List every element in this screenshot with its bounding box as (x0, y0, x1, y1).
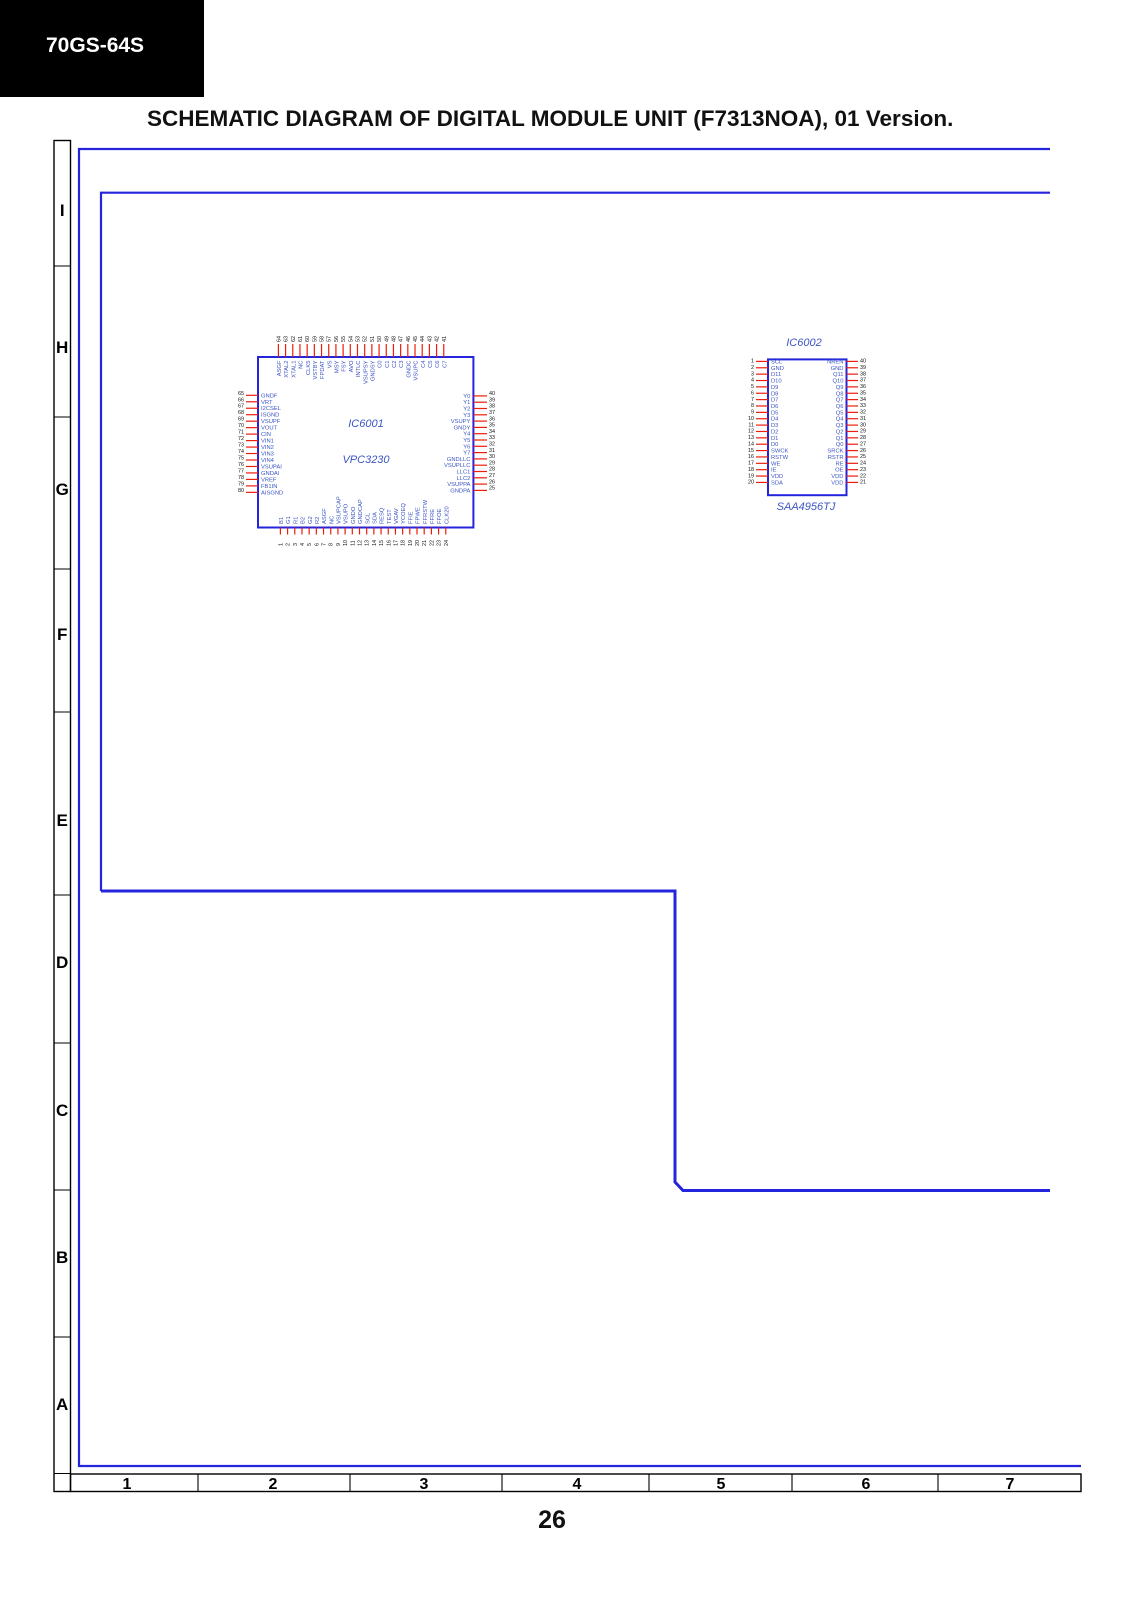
svg-text:D1: D1 (771, 436, 778, 442)
svg-text:TEST: TEST (387, 509, 393, 524)
svg-text:21: 21 (422, 540, 428, 546)
svg-text:28: 28 (489, 467, 495, 473)
svg-text:VSUPLLC: VSUPLLC (444, 463, 470, 469)
svg-text:AISGND: AISGND (261, 490, 283, 496)
svg-text:41: 41 (442, 336, 448, 342)
svg-text:Q0: Q0 (836, 442, 844, 448)
svg-text:35: 35 (860, 390, 866, 396)
svg-text:VREF: VREF (261, 477, 277, 483)
svg-text:61: 61 (298, 336, 304, 342)
svg-text:Y3: Y3 (463, 413, 470, 419)
svg-text:35: 35 (489, 423, 495, 429)
svg-text:D9: D9 (771, 385, 778, 391)
svg-text:SCL: SCL (771, 359, 783, 365)
svg-text:73: 73 (238, 443, 244, 449)
svg-text:G1: G1 (286, 516, 292, 524)
svg-text:Q11: Q11 (833, 372, 844, 378)
svg-text:26: 26 (538, 1506, 566, 1534)
svg-text:38: 38 (860, 371, 866, 377)
svg-text:Q2: Q2 (836, 429, 844, 435)
svg-text:C1: C1 (385, 361, 391, 368)
svg-text:FSY: FSY (342, 360, 348, 371)
svg-text:5: 5 (751, 384, 754, 390)
svg-text:VIN4: VIN4 (261, 458, 275, 464)
svg-text:74: 74 (238, 449, 244, 455)
svg-text:MSY: MSY (335, 360, 341, 373)
svg-text:CLK5: CLK5 (306, 361, 312, 376)
svg-text:R2: R2 (315, 517, 321, 524)
svg-text:ISGND: ISGND (261, 413, 279, 419)
svg-text:GNDSY: GNDSY (370, 360, 376, 381)
svg-text:C2: C2 (392, 361, 398, 368)
column number strip (71, 1474, 1082, 1493)
svg-text:D11: D11 (771, 372, 781, 378)
svg-text:43: 43 (427, 336, 433, 342)
svg-text:34: 34 (860, 397, 866, 403)
svg-text:VSUPF: VSUPF (261, 419, 281, 425)
svg-text:FFOE: FFOE (437, 508, 443, 524)
svg-text:32: 32 (489, 442, 495, 448)
svg-text:34: 34 (489, 429, 495, 435)
svg-text:15: 15 (748, 448, 754, 454)
svg-text:50: 50 (377, 336, 383, 342)
svg-text:D4: D4 (771, 417, 779, 423)
svg-text:XTAL2: XTAL2 (284, 361, 290, 378)
svg-text:NC: NC (329, 516, 335, 524)
svg-text:45: 45 (413, 336, 419, 342)
svg-text:D: D (56, 953, 68, 972)
svg-text:70GS-64S: 70GS-64S (46, 34, 144, 57)
svg-text:17: 17 (393, 540, 399, 546)
svg-text:7: 7 (1006, 1476, 1015, 1493)
row letter strip (54, 141, 71, 1492)
svg-text:66: 66 (238, 397, 244, 403)
svg-text:26: 26 (860, 448, 866, 454)
svg-text:Y0: Y0 (463, 394, 470, 400)
svg-text:68: 68 (238, 410, 244, 416)
svg-text:Y2: Y2 (463, 407, 470, 413)
svg-text:D3: D3 (771, 423, 778, 429)
svg-text:78: 78 (238, 475, 244, 481)
svg-text:E: E (57, 811, 68, 830)
svg-text:31: 31 (489, 448, 495, 454)
svg-text:33: 33 (860, 403, 866, 409)
svg-text:LLC2: LLC2 (457, 476, 471, 482)
svg-text:18: 18 (748, 467, 754, 473)
svg-text:VSUPAI: VSUPAI (261, 464, 282, 470)
svg-text:C3: C3 (399, 361, 405, 368)
svg-text:Y1: Y1 (463, 400, 470, 406)
svg-text:75: 75 (238, 456, 244, 462)
svg-text:9: 9 (751, 410, 754, 416)
svg-text:VSTBY: VSTBY (313, 360, 319, 379)
svg-text:11: 11 (350, 540, 356, 546)
svg-text:36: 36 (489, 416, 495, 422)
svg-text:25: 25 (860, 454, 866, 460)
svg-text:31: 31 (860, 416, 866, 422)
svg-text:VGAV: VGAV (394, 508, 400, 524)
svg-text:D7: D7 (771, 398, 778, 404)
svg-text:VSUPCAP: VSUPCAP (337, 496, 343, 524)
svg-text:Y7: Y7 (463, 451, 470, 457)
svg-text:22: 22 (860, 473, 866, 479)
svg-text:C7: C7 (442, 361, 448, 368)
svg-text:13: 13 (748, 435, 754, 441)
svg-text:ASGF: ASGF (322, 508, 328, 524)
svg-text:VPC3230: VPC3230 (342, 454, 390, 466)
svg-text:13: 13 (365, 540, 371, 546)
svg-text:6: 6 (314, 543, 320, 546)
svg-text:LLC1: LLC1 (457, 470, 471, 476)
svg-text:77: 77 (238, 468, 244, 474)
svg-text:B1: B1 (279, 517, 285, 524)
svg-text:10: 10 (343, 540, 349, 546)
svg-text:VSUPSY: VSUPSY (363, 360, 369, 384)
svg-text:65: 65 (238, 391, 244, 397)
svg-text:GNDC: GNDC (406, 361, 412, 378)
svg-text:VDD: VDD (831, 480, 843, 486)
svg-text:14: 14 (748, 441, 754, 447)
op-amp U2 IC6002 body (768, 337, 847, 513)
svg-text:14: 14 (372, 540, 378, 546)
IC6002 left pins 1-20 (748, 359, 789, 487)
svg-text:25: 25 (489, 486, 495, 492)
svg-text:71: 71 (238, 430, 244, 436)
svg-text:70: 70 (238, 423, 244, 429)
sheet title (147, 106, 953, 131)
svg-text:I: I (60, 201, 65, 220)
svg-text:5: 5 (307, 543, 313, 546)
svg-text:55: 55 (341, 336, 347, 342)
svg-text:30: 30 (489, 454, 495, 460)
svg-text:19: 19 (748, 473, 754, 479)
svg-text:12: 12 (748, 429, 754, 435)
svg-text:63: 63 (284, 336, 290, 342)
svg-text:SDA: SDA (771, 480, 783, 486)
svg-text:Q5: Q5 (836, 410, 844, 416)
svg-text:GNDAI: GNDAI (261, 471, 280, 477)
IC6001 left pins 65-80 (238, 391, 283, 497)
svg-text:12: 12 (357, 540, 363, 546)
svg-text:22: 22 (429, 540, 435, 546)
svg-text:C5: C5 (428, 361, 434, 368)
svg-text:VDD: VDD (771, 474, 783, 480)
svg-text:IC6001: IC6001 (348, 418, 383, 430)
svg-text:Q3: Q3 (836, 423, 844, 429)
svg-text:5: 5 (717, 1476, 726, 1493)
svg-text:SRCK: SRCK (827, 449, 843, 455)
svg-text:SWCK: SWCK (771, 449, 789, 455)
svg-text:3: 3 (420, 1476, 429, 1493)
svg-text:40: 40 (489, 391, 495, 397)
svg-text:XTAL1: XTAL1 (291, 361, 297, 378)
svg-text:20: 20 (748, 480, 754, 486)
svg-text:VS: VS (327, 360, 333, 368)
svg-text:19: 19 (408, 540, 414, 546)
svg-text:FPDAT: FPDAT (320, 360, 326, 379)
svg-text:SCL: SCL (365, 512, 371, 524)
svg-text:GNDO: GNDO (351, 506, 357, 524)
svg-text:6: 6 (862, 1476, 871, 1493)
svg-text:RSTR: RSTR (828, 455, 844, 461)
svg-text:38: 38 (489, 404, 495, 410)
svg-text:VDD: VDD (831, 474, 843, 480)
svg-text:10: 10 (748, 416, 754, 422)
svg-text:VSUPPA: VSUPPA (447, 482, 470, 488)
svg-text:D0: D0 (771, 442, 778, 448)
svg-text:28: 28 (860, 435, 866, 441)
svg-text:Q4: Q4 (836, 417, 845, 423)
svg-text:24: 24 (860, 461, 866, 467)
IC6001 bottom pins 1-24 (278, 496, 450, 546)
svg-text:57: 57 (327, 336, 333, 342)
svg-text:72: 72 (238, 436, 244, 442)
svg-text:Q6: Q6 (836, 404, 844, 410)
svg-text:80: 80 (238, 488, 244, 494)
svg-text:8: 8 (329, 543, 335, 546)
svg-text:21: 21 (860, 480, 866, 486)
svg-text:2: 2 (269, 1476, 278, 1493)
svg-text:67: 67 (238, 404, 244, 410)
svg-text:4: 4 (573, 1476, 582, 1493)
svg-text:56: 56 (334, 336, 340, 342)
svg-text:7: 7 (751, 397, 754, 403)
svg-text:79: 79 (238, 481, 244, 487)
svg-text:48: 48 (391, 336, 397, 342)
svg-text:42: 42 (435, 336, 441, 342)
svg-text:IE: IE (771, 468, 777, 474)
svg-text:C6: C6 (435, 361, 441, 368)
svg-text:D10: D10 (771, 379, 782, 385)
svg-text:RESQ: RESQ (380, 507, 386, 524)
svg-text:20: 20 (415, 540, 421, 546)
svg-text:OE: OE (835, 468, 844, 474)
svg-text:G2: G2 (308, 516, 314, 524)
svg-text:AVO: AVO (349, 360, 355, 372)
svg-text:Y5: Y5 (463, 438, 470, 444)
svg-text:RSTW: RSTW (771, 455, 789, 461)
svg-text:C0: C0 (378, 361, 384, 368)
svg-text:8: 8 (751, 403, 754, 409)
svg-text:FFIE: FFIE (408, 511, 414, 524)
svg-text:39: 39 (489, 397, 495, 403)
svg-text:Q8: Q8 (836, 391, 844, 397)
svg-text:49: 49 (384, 336, 390, 342)
svg-text:Q10: Q10 (833, 379, 844, 385)
svg-text:29: 29 (860, 429, 866, 435)
svg-text:36: 36 (860, 384, 866, 390)
svg-text:VIN1: VIN1 (261, 439, 274, 445)
svg-text:CIN: CIN (261, 432, 271, 438)
svg-text:17: 17 (748, 461, 754, 467)
svg-text:Q9: Q9 (836, 385, 844, 391)
svg-text:SDA: SDA (372, 512, 378, 524)
svg-text:39: 39 (860, 365, 866, 371)
svg-text:3: 3 (751, 371, 754, 377)
svg-text:FB1IN: FB1IN (261, 484, 277, 490)
svg-text:29: 29 (489, 460, 495, 466)
svg-text:D6: D6 (771, 404, 778, 410)
svg-text:WE: WE (771, 461, 780, 467)
svg-text:37: 37 (860, 378, 866, 384)
svg-text:40: 40 (860, 359, 866, 365)
svg-text:GNDCAP: GNDCAP (358, 499, 364, 524)
svg-text:4: 4 (300, 543, 306, 546)
svg-text:30: 30 (860, 422, 866, 428)
svg-text:47: 47 (399, 336, 405, 342)
svg-text:VIN2: VIN2 (261, 445, 274, 451)
IC6002 right pins 40-21 (827, 359, 866, 487)
svg-text:44: 44 (420, 336, 426, 342)
outer border frame (79, 149, 1081, 1466)
svg-text:INTLC: INTLC (356, 361, 362, 378)
svg-text:33: 33 (489, 435, 495, 441)
svg-text:C: C (56, 1101, 68, 1120)
svg-text:RE: RE (835, 461, 843, 467)
svg-text:FFRE: FFRE (430, 509, 436, 524)
svg-text:VSUPY: VSUPY (451, 419, 471, 425)
svg-text:37: 37 (489, 410, 495, 416)
svg-text:16: 16 (748, 454, 754, 460)
svg-text:GNDF: GNDF (261, 393, 278, 399)
svg-text:46: 46 (406, 336, 412, 342)
svg-text:B: B (56, 1248, 68, 1267)
svg-text:Y4: Y4 (463, 432, 471, 438)
svg-text:76: 76 (238, 462, 244, 468)
inner border frame (101, 193, 1050, 1191)
svg-text:D2: D2 (771, 429, 778, 435)
svg-text:F: F (57, 625, 67, 644)
svg-text:27: 27 (860, 441, 866, 447)
page number 26 (538, 1506, 566, 1534)
svg-text:59: 59 (312, 336, 318, 342)
svg-text:23: 23 (437, 540, 443, 546)
svg-text:VSUPO: VSUPO (344, 503, 350, 524)
svg-text:3: 3 (293, 543, 299, 546)
svg-text:GND: GND (771, 366, 784, 372)
svg-text:11: 11 (748, 422, 754, 428)
svg-text:FFRSTW: FFRSTW (423, 499, 429, 524)
svg-text:51: 51 (370, 336, 376, 342)
svg-text:Q1: Q1 (836, 436, 844, 442)
svg-text:NC: NC (299, 361, 305, 369)
IC6001 right pins 40-25 (444, 391, 495, 494)
svg-text:1: 1 (123, 1476, 132, 1493)
svg-text:D8: D8 (771, 391, 778, 397)
svg-text:7: 7 (322, 543, 328, 546)
black title block (0, 0, 204, 97)
svg-text:4: 4 (751, 378, 754, 384)
IC6001 top pins 64-41 (276, 336, 448, 384)
svg-text:D5: D5 (771, 410, 778, 416)
svg-text:60: 60 (305, 336, 311, 342)
svg-text:58: 58 (320, 336, 326, 342)
svg-text:NREN: NREN (827, 359, 843, 365)
svg-text:H: H (56, 338, 68, 357)
svg-text:IC6002: IC6002 (786, 337, 821, 349)
svg-text:9: 9 (336, 543, 342, 546)
svg-text:Q7: Q7 (836, 398, 844, 404)
svg-text:2: 2 (286, 543, 292, 546)
svg-text:FPWE: FPWE (416, 507, 422, 524)
svg-text:1: 1 (751, 359, 754, 365)
svg-text:GNDLLC: GNDLLC (447, 457, 471, 463)
svg-text:6: 6 (751, 390, 754, 396)
svg-text:52: 52 (363, 336, 369, 342)
svg-text:15: 15 (379, 540, 385, 546)
svg-text:54: 54 (348, 336, 354, 342)
svg-text:64: 64 (276, 336, 282, 342)
svg-text:CLK20: CLK20 (444, 506, 450, 524)
svg-text:26: 26 (489, 479, 495, 485)
svg-text:GND: GND (831, 366, 844, 372)
svg-text:2: 2 (751, 365, 754, 371)
svg-text:ASGF: ASGF (277, 360, 283, 376)
svg-text:27: 27 (489, 473, 495, 479)
svg-text:VOUT: VOUT (261, 426, 278, 432)
svg-text:VIN3: VIN3 (261, 452, 274, 458)
svg-text:16: 16 (386, 540, 392, 546)
svg-text:69: 69 (238, 417, 244, 423)
svg-text:C4: C4 (421, 360, 427, 368)
svg-text:SAA4956TJ: SAA4956TJ (777, 501, 836, 513)
svg-text:18: 18 (401, 540, 407, 546)
svg-text:A: A (56, 1395, 68, 1414)
op-amp U1 IC6001 body (258, 357, 473, 528)
svg-text:1: 1 (278, 543, 284, 546)
svg-text:G: G (56, 480, 69, 499)
svg-text:GNDPA: GNDPA (450, 488, 470, 494)
svg-text:53: 53 (355, 336, 361, 342)
svg-text:62: 62 (291, 336, 297, 342)
svg-text:32: 32 (860, 410, 866, 416)
svg-text:R1: R1 (293, 517, 299, 524)
svg-text:24: 24 (444, 540, 450, 546)
svg-text:I2CSEL: I2CSEL (261, 406, 282, 412)
svg-text:VRT: VRT (261, 400, 273, 406)
svg-text:23: 23 (860, 467, 866, 473)
svg-text:YCOEQ: YCOEQ (401, 503, 407, 524)
svg-text:Y6: Y6 (463, 444, 470, 450)
svg-text:SCHEMATIC DIAGRAM OF DIGITAL M: SCHEMATIC DIAGRAM OF DIGITAL MODULE UNIT… (147, 106, 953, 131)
svg-text:GNDY: GNDY (454, 425, 471, 431)
svg-text:B2: B2 (301, 517, 307, 524)
svg-text:VSUPC: VSUPC (414, 361, 420, 381)
